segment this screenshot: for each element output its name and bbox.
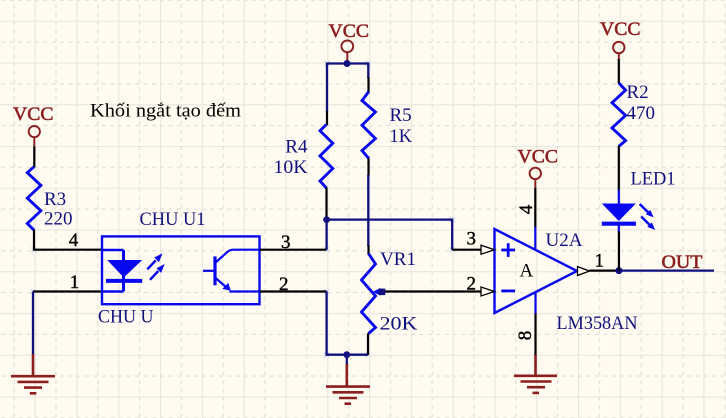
svg-text:3: 3: [281, 232, 291, 253]
op-amp plus sign: [501, 243, 515, 257]
wire op-amp output to node OUT: [590, 270, 619, 272]
opto internal LED: [102, 250, 142, 292]
wire corner markers: [31, 61, 455, 357]
svg-text:VR1: VR1: [380, 249, 416, 270]
pin R4 to node A: [325, 188, 327, 220]
svg-text:VCC: VCC: [518, 147, 559, 168]
wire into op-amp pin 3: [452, 249, 481, 251]
svg-text:LED1: LED1: [631, 168, 676, 189]
pin 4 wire (op-amp V+): [534, 188, 536, 228]
ground GND1: [11, 354, 55, 393]
pin R2 to LED1: [618, 146, 620, 191]
svg-text:CHU U: CHU U: [98, 306, 154, 327]
resistor R5: [362, 92, 375, 159]
svg-text:3: 3: [467, 228, 477, 249]
svg-text:2: 2: [467, 274, 477, 295]
wire R3 to opto pin 4: [34, 230, 102, 250]
pin R5 bottom: [367, 158, 369, 176]
svg-text:CHU U1: CHU U1: [140, 209, 206, 230]
pin VR1 top: [367, 245, 369, 255]
op-amp U2A triangle: [495, 229, 578, 313]
svg-text:4: 4: [516, 204, 537, 214]
wire opto pin 2 to ground: [260, 290, 327, 292]
svg-text:R2: R2: [627, 82, 649, 103]
svg-text:8: 8: [515, 331, 536, 341]
pin 8 wire (op-amp V-): [534, 292, 536, 314]
svg-text:R4: R4: [285, 137, 308, 158]
svg-text:1K: 1K: [390, 126, 413, 147]
input arrow pin 3: [481, 245, 495, 254]
LED light arrow 1: [640, 204, 654, 217]
opto light arrow 2: [150, 264, 165, 280]
op-amp minus sign: [501, 289, 515, 292]
wire down to ground rail: [327, 292, 368, 355]
svg-text:1: 1: [70, 272, 80, 293]
power port VCC (op-amp): [530, 168, 541, 188]
svg-text:Khối ngắt tạo đếm: Khối ngắt tạo đếm: [90, 101, 241, 122]
svg-text:20K: 20K: [380, 314, 418, 335]
pin to R4: [326, 111, 328, 125]
svg-text:A: A: [520, 260, 534, 281]
VR1 wiper arrow: [373, 288, 381, 296]
junction dot at VCC rail: [344, 60, 351, 67]
svg-text:1: 1: [595, 251, 605, 272]
svg-text:10K: 10K: [274, 157, 308, 178]
wire stub to GND2: [346, 355, 348, 365]
svg-text:OUT: OUT: [662, 252, 703, 273]
wire LED1 to node OUT: [618, 232, 620, 271]
resistor R4: [320, 125, 333, 189]
pin VR1 bottom: [367, 333, 369, 355]
resistor R2: [612, 83, 626, 146]
wire VCC rail to R4: [327, 64, 347, 113]
pin VCC to R2: [618, 59, 620, 84]
wire node A to op-amp pin 3: [327, 220, 453, 250]
junction dot node OUT: [615, 267, 622, 274]
optocoupler U1 box: [102, 236, 260, 304]
wire VCC rail to R5: [347, 64, 368, 79]
svg-text:U2A: U2A: [546, 230, 583, 251]
wire VR1 wiper to op-amp pin 2: [385, 290, 482, 292]
svg-text:2: 2: [279, 274, 289, 295]
svg-text:220: 220: [44, 209, 73, 230]
power port VCC (R2): [613, 42, 624, 60]
LED light arrow 2: [641, 217, 655, 230]
opto light arrow 1: [147, 253, 162, 269]
ground GND3: [514, 355, 557, 393]
VR1 wiper junction square: [379, 289, 386, 296]
svg-text:4: 4: [69, 230, 79, 251]
wire R5 to VR1 (crosses node A wire): [367, 175, 369, 246]
power port VCC (for R3): [29, 126, 40, 146]
wire up to node A: [325, 220, 327, 250]
pin to R5: [367, 77, 369, 92]
svg-text:LM358AN: LM358AN: [557, 313, 638, 334]
wire opto pin 1 to ground: [33, 290, 102, 292]
svg-text:470: 470: [627, 103, 656, 124]
input arrow pin 2: [481, 287, 495, 296]
wire down to GND1: [32, 292, 34, 356]
power port VCC (center, R4/R5): [341, 40, 353, 61]
junction dot node A: [323, 216, 330, 223]
svg-text:VCC: VCC: [600, 19, 641, 40]
svg-text:R5: R5: [390, 105, 412, 126]
wire VCC to R3 (pin): [33, 146, 35, 167]
output arrow pin 1: [578, 267, 590, 276]
svg-text:R3: R3: [44, 189, 66, 210]
ground GND2: [326, 364, 370, 404]
potentiometer VR1: [362, 254, 376, 334]
svg-text:VCC: VCC: [13, 104, 54, 125]
opto phototransistor: [203, 250, 260, 292]
svg-text:VCC: VCC: [329, 21, 370, 42]
wire node OUT to right edge: [619, 269, 714, 271]
wire opto pin 3 to node A: [260, 249, 327, 251]
resistor R3: [27, 167, 41, 231]
junction dot J2: [343, 351, 350, 358]
LED LED1: [602, 190, 636, 233]
